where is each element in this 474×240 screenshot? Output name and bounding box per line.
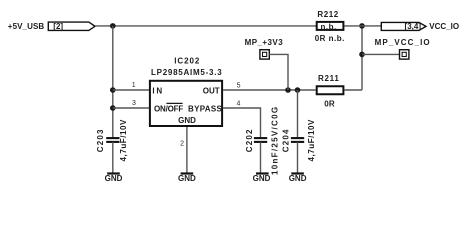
ground under C204 [289, 174, 307, 184]
wire C203 to ground [112, 142, 114, 173]
junction C204 drop [295, 87, 301, 93]
wire +5V_USB rail (tag to R212) [95, 25, 316, 27]
supply tag VCC_IO [3,4] [381, 22, 426, 31]
svg-text:+5V_USB: +5V_USB [8, 22, 45, 31]
svg-text:5: 5 [237, 82, 241, 89]
wire to pin 3 [113, 107, 149, 109]
svg-text:C204: C204 [282, 128, 291, 152]
junction at rail / right drop [359, 23, 365, 29]
svg-text:BYPASS: BYPASS [188, 105, 222, 114]
svg-text:4: 4 [237, 100, 241, 107]
svg-text:GND: GND [253, 174, 271, 183]
wire right vertical (VCC_IO drop) [361, 26, 363, 90]
wire MP_+3V3 to +3V3 net [269, 54, 288, 90]
wire pin 2 to ground [186, 127, 188, 173]
wire to MP_VCC_IO [362, 53, 400, 55]
test point MP_+3V3 [260, 50, 269, 59]
ground under C203 [105, 174, 123, 184]
supply tag +5V_USB [2] [48, 22, 95, 31]
wire C202 to ground [260, 142, 262, 173]
svg-text:0R: 0R [324, 99, 335, 108]
svg-text:GND: GND [105, 174, 123, 183]
svg-text:GND: GND [289, 174, 307, 183]
ground under IC202 [178, 174, 196, 184]
svg-text:IC202: IC202 [174, 57, 200, 66]
capacitor C202 [254, 138, 267, 142]
resistor R212 [317, 22, 344, 30]
svg-text:MP_VCC_IO: MP_VCC_IO [375, 38, 431, 47]
voltage regulator IC202 box [150, 81, 222, 126]
wire to pin 1 [113, 89, 149, 91]
junction at ON/OFF pin [110, 105, 116, 111]
test point MP_VCC_IO [400, 50, 409, 59]
svg-text:4,7uF/10V: 4,7uF/10V [119, 119, 128, 161]
svg-text:4,7uF/10V: 4,7uF/10V [307, 119, 316, 161]
svg-text:[2]: [2] [53, 22, 63, 31]
junction MP_+3V3 drop [285, 87, 291, 93]
capacitor C203 [106, 138, 119, 142]
svg-text:GND: GND [178, 174, 196, 183]
svg-text:LP2985AIM5-3.3: LP2985AIM5-3.3 [151, 68, 222, 77]
pin name ON/OFF with overline [154, 103, 183, 113]
svg-text:n.b.: n.b. [320, 22, 336, 31]
svg-text:C203: C203 [96, 128, 105, 152]
svg-text:ON/OFF: ON/OFF [154, 105, 183, 114]
wire OUT pin 5 to R211 [223, 89, 316, 91]
svg-text:OUT: OUT [203, 87, 220, 96]
svg-text:R212: R212 [317, 10, 339, 19]
wire R212 to VCC_IO tag [344, 25, 381, 27]
wire left vertical drop to C203 [112, 26, 114, 139]
svg-text:[3,4]: [3,4] [405, 22, 422, 31]
junction at IN pin [110, 87, 116, 93]
svg-text:2: 2 [180, 141, 184, 148]
wire C204 top to +3V3 rail [297, 90, 299, 139]
svg-text:MP_+3V3: MP_+3V3 [245, 38, 284, 47]
svg-text:0R n.b.: 0R n.b. [315, 34, 345, 43]
wire R211 to right vertical [344, 89, 362, 91]
wire BYPASS pin 4 to C202 [223, 108, 260, 139]
svg-text:C202: C202 [245, 128, 254, 152]
svg-text:10nF/25V/C0G: 10nF/25V/C0G [271, 106, 280, 175]
svg-text:R211: R211 [318, 74, 339, 83]
junction at rail / left drop [110, 23, 116, 29]
svg-text:1: 1 [132, 82, 136, 89]
capacitor C204 [291, 138, 304, 142]
svg-text:VCC_IO: VCC_IO [429, 22, 459, 31]
svg-text:GND: GND [178, 116, 196, 125]
junction MP_VCC_IO [359, 52, 365, 58]
wire C204 to ground [297, 142, 299, 173]
ground under C202 [253, 174, 271, 184]
resistor R211 [317, 86, 344, 94]
svg-text:3: 3 [132, 100, 136, 107]
svg-text:IN: IN [152, 87, 164, 96]
